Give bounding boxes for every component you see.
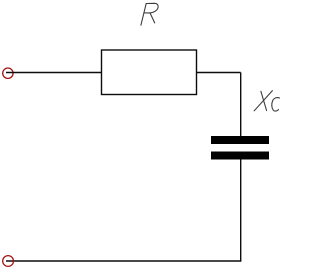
label R xyxy=(141,3,158,25)
terminal T2 (bottom-left input) xyxy=(3,256,14,267)
terminal T1 (top-left input) xyxy=(3,68,13,78)
wire: bottom return to T2 xyxy=(6,260,241,262)
resistor R xyxy=(102,50,197,95)
capacitor C bottom plate xyxy=(211,152,269,160)
wire: capacitor bottom plate down xyxy=(240,160,242,262)
capacitor C top plate xyxy=(211,136,269,144)
label Xc xyxy=(254,91,279,111)
wire: T1 to resistor left xyxy=(6,72,102,74)
wire: resistor right to node xyxy=(197,72,241,74)
wire: node down to capacitor top plate xyxy=(240,73,242,138)
